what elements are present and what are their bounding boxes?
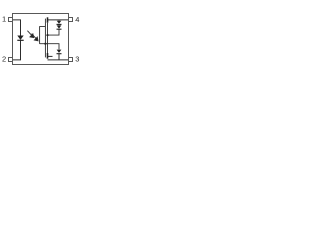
svg-text:3: 3 [75,55,79,64]
svg-text:2: 2 [2,55,6,64]
svg-text:4: 4 [75,15,79,24]
svg-text:1: 1 [2,15,6,24]
